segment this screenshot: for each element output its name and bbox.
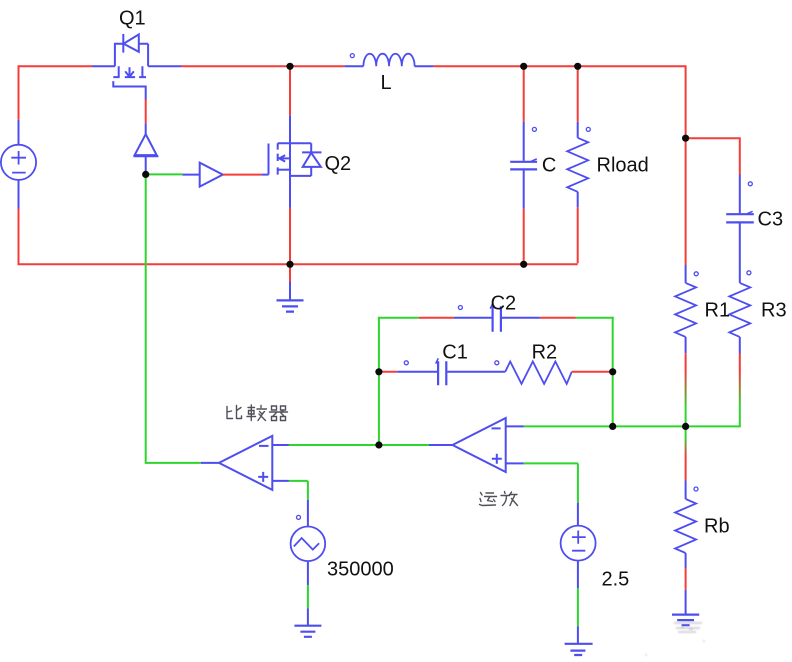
wire xyxy=(685,426,687,480)
wire xyxy=(524,463,578,502)
wire xyxy=(685,568,687,590)
wire xyxy=(739,354,741,427)
op-amp U2 xyxy=(429,418,524,472)
wire xyxy=(685,138,687,265)
resistor R1 xyxy=(675,265,698,353)
source V3 2.5 xyxy=(561,503,596,588)
wire xyxy=(577,66,579,121)
buffer U3 xyxy=(183,163,223,187)
wire xyxy=(577,588,579,626)
svg-text:R3: R3 xyxy=(761,300,787,322)
svg-text:C2: C2 xyxy=(491,293,517,315)
transistor Q1 xyxy=(92,34,181,100)
resistor Rload xyxy=(567,122,590,208)
wire xyxy=(685,353,687,426)
ground xyxy=(294,608,321,637)
svg-text:Q2: Q2 xyxy=(325,153,352,175)
wire xyxy=(523,66,525,263)
wire C1 branch xyxy=(379,371,397,373)
ground xyxy=(277,264,304,311)
wire xyxy=(307,585,309,608)
ground xyxy=(565,626,593,655)
comparator U1 xyxy=(201,436,289,490)
capacitor C2 xyxy=(454,303,540,331)
label comparator (CJK) xyxy=(227,405,288,421)
svg-text:C1: C1 xyxy=(442,342,468,364)
svg-text:2.5: 2.5 xyxy=(602,569,630,591)
wire xyxy=(146,173,183,175)
inductor L xyxy=(344,54,433,67)
transistor Q2 xyxy=(262,115,322,208)
capacitor C xyxy=(510,122,537,209)
wire xyxy=(223,174,262,176)
wire xyxy=(289,481,308,500)
svg-text:L: L xyxy=(381,72,392,94)
source V2 350000 xyxy=(291,500,326,585)
diode D1 xyxy=(134,124,159,175)
capacitor C3 xyxy=(726,175,754,283)
wire xyxy=(18,207,578,264)
wire xyxy=(686,137,740,174)
wire xyxy=(289,66,291,264)
svg-text:Rb: Rb xyxy=(704,516,730,538)
svg-text:350000: 350000 xyxy=(327,559,394,581)
svg-text:C3: C3 xyxy=(758,209,784,231)
resistor R3 xyxy=(729,283,750,354)
wire xyxy=(572,371,613,373)
ground xyxy=(672,590,699,625)
wire xyxy=(289,444,429,446)
wire xyxy=(145,99,147,124)
svg-text:Rload: Rload xyxy=(597,155,649,177)
wire xyxy=(612,317,614,427)
svg-text:R2: R2 xyxy=(532,342,558,364)
capacitor C1 xyxy=(397,358,505,385)
svg-text:R1: R1 xyxy=(705,300,731,322)
watermark xyxy=(645,623,705,656)
resistor R2 xyxy=(495,361,572,384)
wire xyxy=(146,174,201,464)
wire xyxy=(18,65,686,138)
resistor Rb xyxy=(675,481,698,569)
voltage source V1 xyxy=(1,120,36,209)
wire xyxy=(378,317,380,445)
wire C2 branch xyxy=(379,317,614,319)
svg-text:C: C xyxy=(542,155,556,177)
node dots xyxy=(142,63,689,449)
svg-text:Q1: Q1 xyxy=(119,8,146,30)
label opamp (CJK) xyxy=(480,492,518,506)
wire xyxy=(524,425,741,427)
